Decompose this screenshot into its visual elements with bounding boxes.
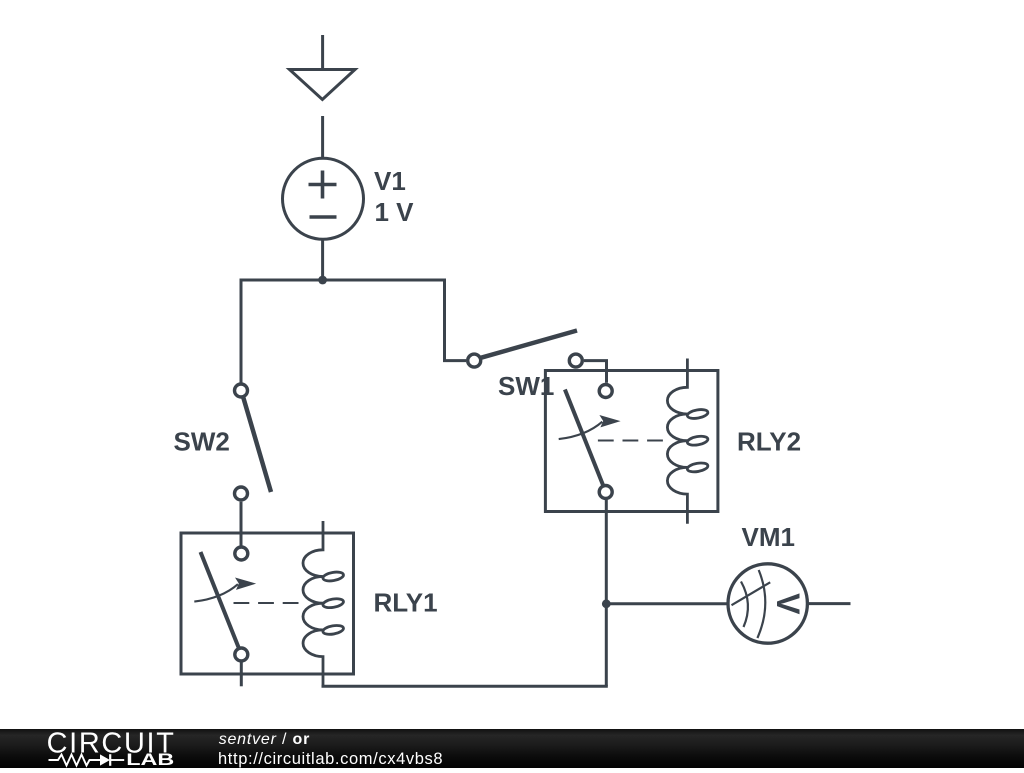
wire RLY2 switch down to bottom rail [605, 500, 608, 687]
relay RLY1 actuation arrow [194, 578, 256, 602]
svg-text:1 V: 1 V [375, 197, 415, 227]
footer bar [0, 729, 1024, 768]
svg-text:http://circuitlab.com/cx4vbs8: http://circuitlab.com/cx4vbs8 [218, 750, 443, 768]
wire top rail with branches [241, 280, 466, 383]
junction node to voltmeter [602, 599, 611, 608]
relay RLY2 coil [667, 359, 708, 524]
relay RLY1 coil [303, 521, 344, 686]
voltmeter VM1 [728, 564, 807, 643]
relay RLY2 box [545, 371, 718, 512]
ground [290, 35, 356, 100]
relay RLY1 switch bottom terminal [235, 648, 248, 661]
switch SW2 blade [243, 397, 271, 493]
relay RLY2 switch blade [565, 390, 603, 486]
relay RLY1 coupling dashed line [234, 602, 301, 604]
wire ground to V1 [321, 116, 324, 159]
relay RLY2 switch bottom terminal [599, 486, 612, 499]
switch SW1 right terminal [569, 354, 582, 367]
relay RLY1 box [181, 533, 354, 674]
switch SW1 left terminal [468, 354, 481, 367]
svg-text:LAB: LAB [126, 751, 174, 768]
svg-text:VM1: VM1 [742, 522, 795, 552]
wire bottom rail [323, 685, 608, 687]
switch SW2 bottom terminal [235, 487, 248, 500]
relay RLY2 coupling dashed line [598, 440, 665, 442]
wire RLY1 switch stub [240, 661, 243, 686]
svg-text:sentver / or: sentver / or [219, 731, 310, 748]
CircuitLab logo resistor-diode glyph [49, 754, 125, 766]
svg-text:RLY2: RLY2 [737, 427, 801, 457]
switch SW1 blade [481, 331, 577, 358]
wire VM1 right stub [809, 602, 851, 605]
relay RLY1 switch top terminal [235, 547, 248, 560]
wire SW2 to RLY1 [240, 502, 243, 546]
wire junction to VM1 [606, 602, 728, 605]
wire SW1 to RLY2 switch [584, 361, 607, 383]
junction node at V1 output [318, 276, 327, 285]
svg-text:V: V [770, 593, 806, 615]
voltage source V1 [283, 158, 364, 239]
switch SW2 top terminal [235, 384, 248, 397]
relay RLY2 actuation arrow [559, 415, 621, 439]
relay RLY2 switch top terminal [599, 385, 612, 398]
wire V1 to junction [321, 240, 324, 281]
relay RLY1 switch blade [201, 552, 239, 648]
svg-text:RLY1: RLY1 [374, 588, 438, 618]
svg-text:V1: V1 [374, 166, 406, 196]
svg-text:SW2: SW2 [174, 427, 230, 457]
